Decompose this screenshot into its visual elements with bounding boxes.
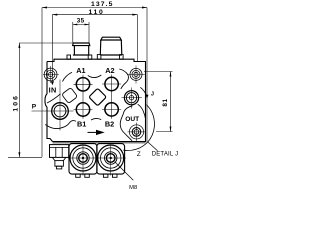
svg-text:M8: M8 (129, 185, 137, 190)
svg-text:81: 81 (162, 98, 169, 106)
svg-text:J: J (151, 92, 154, 98)
svg-text:IN: IN (49, 86, 57, 95)
svg-text:106: 106 (13, 94, 20, 112)
svg-text:P: P (32, 104, 37, 111)
svg-text:110: 110 (88, 9, 104, 16)
svg-text:A2: A2 (105, 66, 114, 75)
svg-text:137.5: 137.5 (91, 1, 114, 8)
svg-text:B1: B1 (77, 120, 86, 129)
svg-text:B2: B2 (105, 120, 114, 129)
svg-text:Z: Z (137, 151, 141, 158)
svg-text:35: 35 (77, 17, 85, 24)
svg-text:DETAIL J: DETAIL J (152, 152, 179, 158)
svg-text:OUT: OUT (125, 116, 139, 123)
svg-text:A1: A1 (76, 66, 85, 75)
